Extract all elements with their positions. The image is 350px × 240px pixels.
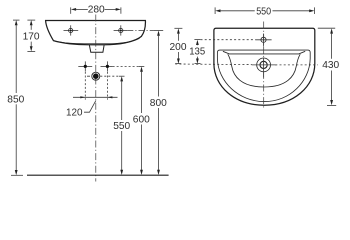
rear hole extension to 135 dim [201,39,256,41]
svg-text:800: 800 [150,98,167,109]
dim 800 line [153,30,163,175]
plan bowl outline [223,51,305,87]
dim 600 line [139,67,145,176]
centerline front view vertical [95,15,97,182]
dim 550 plan line [215,7,315,14]
supply line extension to 600 dim [113,65,139,67]
basin apron lower edge [56,38,140,43]
dim 550 front line [119,76,125,175]
svg-text:120: 120 [66,107,83,118]
faucet centerline extension right [275,64,318,66]
faucet centerline extension left [175,63,252,66]
waste line extension to 550 dim [100,75,119,77]
supply point right [101,61,113,71]
dim 120 line [73,96,118,98]
svg-text:430: 430 [322,60,339,71]
dim 430 line [318,28,336,105]
svg-text:550: 550 [113,121,130,132]
dim 135 line [194,40,200,64]
svg-text:850: 850 [7,95,24,106]
svg-text:280: 280 [88,5,105,16]
hole centerline extension to 800 dim [127,30,153,32]
svg-text:550: 550 [256,6,271,17]
basin drain stub [89,45,104,52]
dim 120 leader [84,101,96,112]
waste outlet [87,72,100,80]
plan inner rim line [217,50,310,102]
supply point left [78,61,92,71]
plan rear hole [255,34,271,47]
svg-text:600: 600 [133,115,150,126]
plan faucet hole [252,58,277,78]
mounting hole right [114,25,128,35]
dim 200 line [174,28,182,63]
svg-text:170: 170 [23,32,40,43]
supply drop line right [106,72,108,100]
dim 850 line [11,20,23,175]
mounting hole left [64,25,79,35]
svg-text:135: 135 [189,46,205,57]
supply drop line left [84,72,86,100]
svg-text:200: 200 [170,42,187,53]
dim 280 line [71,7,121,13]
dim 170 line [27,20,35,51]
plan outer outline [214,28,315,105]
basin front outline [46,21,146,45]
floor line [27,174,169,176]
plan centerline vertical [263,22,265,109]
